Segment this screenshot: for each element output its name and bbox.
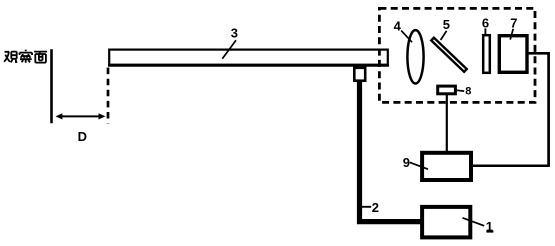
label 1 leader [463, 218, 485, 226]
label 3 leader [222, 40, 236, 59]
svg-text:5: 5 [443, 17, 450, 32]
察 [20, 50, 33, 63]
面 [34, 52, 47, 63]
filter 6 (thin plate) [483, 35, 490, 73]
label 6 leader [484, 28, 486, 35]
label 4 leader [401, 31, 412, 43]
svg-text:2: 2 [372, 200, 379, 215]
dashed axis line below bar [107, 68, 110, 124]
mount bracket under bar [354, 68, 365, 81]
label 8 leader [457, 89, 464, 92]
svg-text:9: 9 [403, 155, 410, 170]
detector 7 (box) [499, 36, 527, 73]
observation plane solid line [50, 49, 53, 123]
wire 9 to right riser [473, 165, 550, 168]
lens 4 (ellipse) [407, 30, 423, 83]
label 9 leader [410, 162, 428, 169]
wire 7 to controller [529, 53, 549, 166]
sensor 8 (small box) [438, 86, 456, 94]
label 2 tick [362, 206, 371, 208]
dashed enclosure box [379, 8, 535, 102]
controller 9 (box) [422, 153, 471, 180]
svg-text:3: 3 [231, 25, 238, 40]
svg-text:D: D [78, 129, 87, 144]
label 7 leader [510, 29, 513, 40]
svg-text:7: 7 [510, 16, 517, 31]
观 [4, 52, 17, 63]
dimension arrow D [56, 113, 106, 119]
wire 2 (thick cable) [360, 82, 421, 222]
svg-text:4: 4 [394, 18, 402, 33]
wire 8 to 9 [446, 95, 448, 152]
label 观察面 (observation plane text, hand-drawn glyphs) [4, 50, 47, 63]
svg-text:6: 6 [482, 16, 489, 31]
label 5 leader [441, 31, 447, 40]
mirror 5 (slanted plate) [431, 38, 467, 72]
source 1 (box) [422, 207, 470, 238]
bar 3 (long arm) [108, 50, 389, 66]
svg-text:8: 8 [465, 86, 471, 98]
